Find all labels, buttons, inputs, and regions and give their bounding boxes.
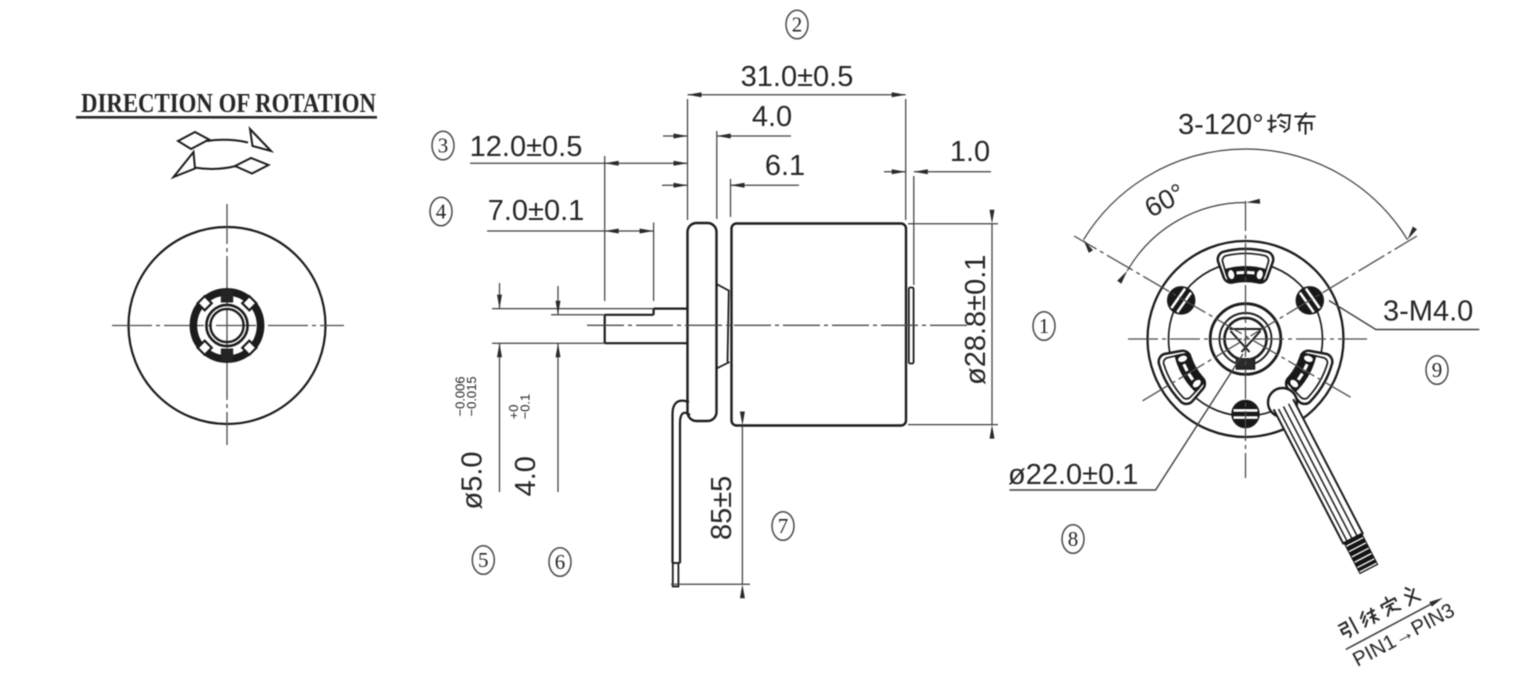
label lead wire definition PIN1-PIN3 (1333, 572, 1458, 672)
svg-text:3-M4.0: 3-M4.0 (1383, 296, 1473, 328)
dim 31.0±0.5 with extension lines (688, 95, 906, 220)
balloon callout 9 (1426, 356, 1448, 385)
rear window slot top (1218, 249, 1274, 283)
side view flange plate (688, 223, 717, 421)
svg-text:7: 7 (778, 514, 789, 538)
svg-text:12.0±0.5: 12.0±0.5 (470, 131, 583, 163)
svg-text:3-120°: 3-120° (1178, 109, 1264, 141)
svg-text:4: 4 (436, 200, 447, 224)
rear view outer circle (1148, 241, 1344, 437)
rear view centerlines (1074, 201, 1417, 478)
dim 7.0±0.1 (487, 223, 654, 302)
dim 3-120deg evenly spaced arc (1084, 149, 1408, 240)
svg-text:31.0±0.5: 31.0±0.5 (741, 61, 854, 93)
rear hub middle ring (1220, 313, 1272, 365)
side view crimp tab top (717, 284, 730, 291)
dim 85±5 (671, 426, 750, 585)
wire bundle (1274, 399, 1379, 574)
side view centerline (587, 324, 968, 326)
dim 4.0 (663, 131, 791, 219)
front hub outer gear ring (193, 292, 260, 359)
svg-text:1.0: 1.0 (950, 136, 990, 168)
mounting screw at 270 deg (1232, 401, 1259, 428)
front hub key slots top and bottom (221, 290, 233, 303)
balloon callout 5 (472, 546, 494, 575)
svg-text:ø5.0−0.006−0.015: ø5.0−0.006−0.015 (453, 376, 489, 509)
svg-text:DIRECTION OF ROTATION: DIRECTION OF ROTATION (81, 88, 376, 118)
svg-text:85±5: 85±5 (706, 476, 738, 540)
rotation arrow bottom (counter-clockwise) (174, 152, 269, 177)
balloon callout 3 (432, 131, 454, 160)
front view centerlines (112, 204, 344, 445)
rear hub outer circle (1210, 304, 1281, 375)
svg-text:3: 3 (438, 134, 449, 158)
wire grommet (1268, 388, 1297, 417)
svg-text:ø28.8±0.1: ø28.8±0.1 (960, 255, 992, 385)
svg-text:6.1: 6.1 (765, 150, 805, 182)
dim 6.1 (662, 179, 799, 217)
mounting screw at 31 deg (1296, 287, 1323, 314)
svg-text:6: 6 (555, 550, 566, 574)
front view outer circle (129, 227, 326, 424)
label 3-M4.0 with leader (1329, 301, 1479, 330)
svg-text:9: 9 (1432, 358, 1443, 382)
svg-text:1: 1 (1039, 314, 1050, 338)
balloon callout 7 (772, 512, 794, 541)
balloon callout 4 (430, 197, 452, 226)
dim Ø5.0 tolerance (vertical) (492, 283, 654, 492)
svg-text:PIN1→PIN3: PIN1→PIN3 (1349, 599, 1458, 672)
svg-text:2: 2 (792, 13, 803, 37)
rear hub inner detail (1230, 329, 1262, 352)
dim 1.0 (884, 172, 991, 285)
balloon callout 1 (1033, 312, 1055, 341)
balloon callout 8 (1062, 525, 1084, 554)
svg-text:5: 5 (478, 548, 489, 572)
dim 4.0 +0/-0.1 (vertical flat) (551, 286, 605, 492)
dim 12.0±0.5 (470, 156, 688, 301)
side view rear boss (909, 288, 914, 364)
dim Ø28.8±0.1 (vertical right) (908, 224, 998, 425)
svg-text:4.0+0−0.1: 4.0+0−0.1 (506, 394, 542, 497)
svg-text:7.0±0.1: 7.0±0.1 (488, 195, 585, 227)
balloon callout 6 (549, 548, 571, 577)
text 均布 (1268, 114, 1290, 131)
title DIRECTION OF ROTATION (76, 88, 377, 119)
rear window slot bottom-left (1159, 351, 1206, 404)
side view crimp tab bottom (717, 362, 730, 369)
svg-text:8: 8 (1068, 527, 1079, 551)
dim 60 degrees arc (1127, 203, 1245, 271)
rear view rim circle (1169, 262, 1323, 416)
label Ø22.0±0.1 with leader (1009, 354, 1243, 490)
mounting screw at 149 deg (1168, 287, 1195, 314)
svg-text:ø22.0±0.1: ø22.0±0.1 (1008, 459, 1138, 491)
rear window slot bottom-right (1285, 351, 1332, 404)
rear hub bore circle (1225, 318, 1267, 360)
svg-text:4.0: 4.0 (752, 101, 792, 133)
lead wire side view (673, 401, 691, 587)
rear hub bottom tab (1237, 358, 1255, 369)
side view motor body can (732, 224, 907, 426)
rotation arrow top (clockwise) (178, 129, 271, 151)
balloon callout 2 (786, 10, 808, 39)
shaft (605, 309, 688, 344)
svg-text:60°: 60° (1140, 178, 1190, 224)
front hub inner rings (206, 305, 247, 346)
side view tab inner edge (728, 291, 729, 362)
